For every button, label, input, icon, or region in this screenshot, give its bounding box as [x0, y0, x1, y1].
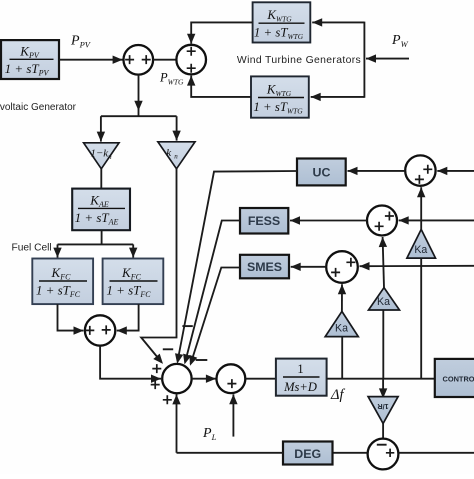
svg-text:SMES: SMES	[247, 260, 282, 274]
summer S1 (PV + WTG)	[124, 45, 154, 75]
wire delta-f tap up to Ka (SMES)	[341, 337, 343, 379]
wire delta-f down into 1/R	[382, 379, 384, 399]
wire wind input bus vertical	[363, 22, 365, 98]
block fuel cell 2 K_FC/(1+sT_FC)	[103, 259, 164, 305]
block SMES	[240, 255, 289, 278]
svg-text:Δf: Δf	[330, 387, 346, 403]
summer S2 (wind turbines sum), P_WTG	[176, 45, 206, 75]
block system 1/(Ms+D)	[276, 359, 327, 396]
wire P_L into S5	[232, 394, 234, 436]
sign minus (kn path)	[163, 348, 173, 350]
gain triangle 1-kn	[84, 143, 119, 169]
wire K_AE output tee to fuel cells	[101, 230, 103, 244]
wire 1/R into S9	[382, 424, 384, 439]
wire bus to WTG2 input	[311, 96, 365, 98]
svg-text:1: 1	[297, 362, 303, 376]
svg-text:Wind Turbine Generators: Wind Turbine Generators	[237, 55, 361, 66]
block wind turbine generator 1 K_WTG/(1+sT_WTG)	[253, 2, 311, 42]
gain triangle kn	[158, 142, 195, 169]
gain triangle Ka (FESS)	[369, 288, 400, 310]
wire into right fuel cell	[132, 244, 134, 257]
block UC	[297, 159, 346, 186]
wire SMES output diagonal into S4	[191, 268, 240, 364]
wire UC output diagonal into S4	[178, 171, 297, 361]
wire bus to WTG1 input	[312, 21, 364, 23]
summer S3 (fuel cells)	[85, 315, 115, 345]
wire FESS output diagonal into S4	[185, 221, 240, 362]
sign minus (UC path)	[182, 325, 192, 327]
wire S8 to SMES block	[291, 266, 327, 268]
wire down into kn triangle	[176, 116, 178, 140]
wire Ka up into S7	[383, 237, 384, 288]
svg-text:FESS: FESS	[248, 214, 280, 228]
wire S2 output to S1	[153, 59, 176, 61]
gain triangle 1/R (inverted)	[368, 397, 398, 424]
block CONTROLLER	[435, 359, 474, 397]
summer S9 (governor)	[368, 439, 399, 470]
block wind turbine generator 2 K_WTG/(1+sT_WTG)	[251, 76, 309, 117]
svg-text:DEG: DEG	[294, 447, 321, 461]
wire split tee to gain triangles	[101, 115, 177, 117]
block aqua electrolyzer K_AE/(1+sT_AE)	[72, 189, 130, 231]
block FESS	[240, 208, 288, 234]
wire fuel cell 2 to summer S3	[117, 304, 139, 331]
wire P_PV into summer S1	[59, 59, 122, 61]
wire into S6 from right	[437, 170, 474, 172]
summer S5 (load)	[217, 364, 246, 393]
svg-text:1/R: 1/R	[377, 402, 389, 411]
wire WTG2 output to S2 bottom	[191, 76, 251, 97]
svg-text:UC: UC	[313, 166, 331, 180]
wire kn gain down, jog, diagonal into S4	[141, 169, 176, 362]
sign plus (left of S4)	[151, 380, 160, 389]
summer S6 (UC)	[405, 155, 435, 185]
wire down into 1-kn triangle	[100, 116, 102, 141]
wire Ka up into S6	[420, 187, 422, 229]
sign plus (below S4)	[163, 395, 172, 404]
wire S4 to S5	[192, 378, 216, 380]
svg-text:Photovoltaic Generator: Photovoltaic Generator	[0, 102, 77, 113]
wire S1 output down with mid arrow	[138, 75, 140, 117]
block fuel cell 1 K_FC/(1+sT_FC)	[32, 259, 93, 305]
summer S8 (SMES)	[326, 251, 358, 283]
sign minus (SMES path)	[196, 359, 208, 361]
wire into S8 from right	[360, 265, 474, 267]
wire S3 output to main summer S4	[100, 346, 161, 379]
wire fuel cell 1 to summer S3	[58, 304, 84, 331]
svg-text:Ms+D: Ms+D	[283, 380, 317, 394]
wire P_W input arrow	[366, 58, 409, 60]
gain triangle Ka (UC)	[407, 229, 436, 258]
block DEG	[283, 442, 333, 465]
wire into left fuel cell	[57, 244, 59, 257]
svg-text:Ka: Ka	[377, 296, 390, 308]
wire S5 to system block	[245, 378, 276, 380]
wire delta-f tap up to Ka (FESS)	[382, 310, 384, 379]
svg-text:Ka: Ka	[335, 323, 348, 335]
wire into S7 from right	[399, 219, 474, 221]
wire S9 to DEG	[333, 452, 368, 454]
sign plus (upper left of S4)	[152, 364, 161, 373]
wire S6 to UC block	[348, 170, 406, 172]
svg-text:Ka: Ka	[414, 244, 427, 256]
wire DEG output to S4 bottom	[177, 452, 284, 454]
wire Ka up into S8	[341, 284, 343, 311]
block PV generator transfer function K_PV/(1+sT_PV)	[1, 40, 59, 79]
summer S7 (FESS)	[367, 206, 397, 236]
wire S9 from right edge	[398, 452, 474, 454]
svg-text:CONTROLLER: CONTROLLER	[443, 374, 474, 383]
main summer S4	[162, 364, 191, 393]
gain triangle Ka (SMES)	[325, 311, 358, 336]
svg-text:Fuel Cell: Fuel Cell	[12, 243, 52, 254]
wire delta-f tap up to Ka (UC)	[420, 258, 422, 379]
wire WTG1 output to S2 top	[191, 22, 252, 43]
wire 1-kn to K_AE block	[100, 169, 102, 189]
wire delta-f line to controller	[327, 378, 435, 380]
wire S7 to FESS block	[290, 220, 367, 222]
